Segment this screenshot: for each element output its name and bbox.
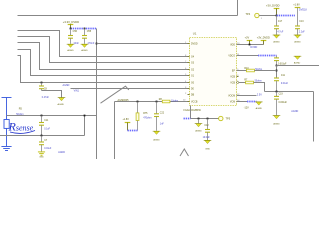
ground AGND of C8	[58, 98, 66, 106]
net label AGND005	[118, 99, 130, 102]
svg-text:DB: DB	[191, 95, 195, 97]
svg-text:VCB: VCB	[230, 83, 235, 85]
ground GND of C7	[38, 152, 45, 159]
resistor R8	[159, 99, 178, 103]
svg-text:AGND: AGND	[294, 61, 301, 64]
IC U1 part number	[184, 109, 202, 112]
capacitor C17	[274, 16, 284, 35]
capacitor C11b	[274, 75, 289, 92]
svg-text:+3V_DVDD: +3V_DVDD	[257, 36, 270, 39]
svg-text:VOCM: VOCM	[228, 96, 235, 98]
svg-text:DVDD: DVDD	[250, 46, 257, 49]
svg-text:AGND: AGND	[195, 129, 202, 132]
wire C10 to C11b	[276, 66, 278, 79]
node junction C56	[70, 28, 72, 30]
svg-text:AGND: AGND	[273, 122, 280, 125]
svg-text:+3V_DVDD: +3V_DVDD	[266, 3, 280, 7]
svg-text:AGND: AGND	[294, 41, 301, 44]
node junction C19	[276, 91, 278, 93]
svg-text:+1.8V: +1.8V	[123, 118, 130, 121]
wire bus line 2	[18, 37, 188, 63]
wire VDCO row	[237, 55, 259, 57]
IC U1 designator	[193, 31, 197, 35]
capacitor C19	[274, 92, 288, 116]
svg-text:AGND: AGND	[291, 110, 298, 113]
svg-text:AGND: AGND	[58, 151, 65, 154]
node junction C7	[41, 135, 43, 137]
wire bus line 1	[18, 31, 188, 57]
wire TP4 to junction	[259, 16, 276, 20]
svg-text:VCB: VCB	[230, 77, 235, 79]
IC U1 right pins	[228, 43, 240, 104]
svg-text:2.2uF: 2.2uF	[299, 32, 305, 34]
wire bus line 3	[18, 43, 188, 70]
svg-text:C56: C56	[73, 30, 78, 33]
resistor R5 labels	[16, 108, 23, 117]
resistor R75	[136, 102, 151, 131]
wire +1.8V to R75 (selected)	[128, 130, 138, 132]
ground GND of C12	[204, 140, 212, 150]
svg-text:1nF: 1nF	[160, 124, 165, 126]
capacitor C56	[68, 29, 79, 45]
node junction R10 row	[276, 70, 278, 72]
svg-text:0.01uF: 0.01uF	[281, 83, 289, 85]
power +1.8V port	[123, 118, 131, 130]
svg-text:VDD: VDD	[230, 45, 235, 47]
resistor R10	[237, 68, 277, 72]
node junction VDD	[249, 44, 251, 46]
wire Rsense vertical (selected)	[6, 98, 8, 120]
svg-text:0.001uF: 0.001uF	[279, 102, 288, 104]
svg-text:10ohm: 10ohm	[171, 100, 178, 102]
capacitor C12	[203, 119, 211, 141]
svg-text:+3.3V_DVDD: +3.3V_DVDD	[63, 20, 79, 24]
power +3V port	[245, 36, 253, 44]
ground AGND drop	[195, 119, 203, 133]
svg-text:C11: C11	[281, 75, 286, 77]
wire row 7	[71, 88, 188, 90]
svg-text:1: 1	[261, 18, 262, 20]
node junction C11	[41, 115, 43, 117]
wire IC bottom stub	[190, 106, 192, 119]
svg-text:R75: R75	[143, 113, 148, 115]
svg-text:C55: C55	[87, 30, 92, 33]
capacitor C8	[39, 83, 50, 99]
power +3.3V_DVDD symbol	[68, 25, 74, 29]
svg-text:C13: C13	[299, 21, 304, 23]
svg-text:470ohm: 470ohm	[143, 118, 151, 120]
wire VDCO selected	[258, 55, 277, 57]
svg-text:DVD18: DVD18	[299, 9, 307, 12]
svg-text:GND: GND	[205, 148, 210, 150]
power +1.8V label	[293, 3, 300, 6]
power +3V_DVDD top label	[266, 3, 280, 7]
power +3V_DVDD port 2	[257, 36, 270, 44]
svg-text:VCM: VCM	[230, 102, 235, 104]
resistor R7	[239, 80, 265, 92]
svg-text:VCCB: VCCB	[191, 102, 198, 104]
wire bus line 4	[18, 50, 188, 76]
wire right down	[313, 92, 315, 142]
net label DVD18	[299, 9, 307, 12]
resistor R? (selected)	[4, 120, 9, 129]
wire caret jog	[180, 149, 189, 156]
wire VCM selected	[247, 101, 257, 103]
capacitor C7	[39, 136, 52, 152]
svg-text:10.0uF: 10.0uF	[203, 137, 211, 139]
capacitor C11	[39, 116, 51, 136]
node junction 84.5-115	[84, 115, 86, 117]
wire TP5 row	[191, 118, 219, 120]
wire below resistor (selected)	[6, 128, 8, 146]
svg-text:50ohm: 50ohm	[255, 81, 262, 83]
wire VOCM row	[237, 94, 263, 97]
node junction C22	[156, 101, 158, 103]
svg-text:VIN1: VIN1	[74, 90, 80, 93]
IC U1 body	[190, 38, 237, 106]
wire vertical 84.5	[84, 116, 86, 136]
svg-text:AGND: AGND	[58, 103, 65, 106]
net label blue bottom	[58, 151, 65, 154]
node junction GND drop	[198, 118, 200, 120]
svg-text:FGA/ADC2BFW: FGA/ADC2BFW	[184, 109, 202, 112]
svg-text:0.47uF: 0.47uF	[42, 97, 50, 99]
wire VCM row	[237, 101, 248, 103]
ground AGND of VCM	[255, 102, 263, 110]
net label blue row5	[63, 84, 70, 87]
node junction DVDD feed	[96, 43, 98, 45]
net label blue row7	[74, 90, 80, 93]
ground AGND of C56	[67, 44, 75, 52]
capacitor C10	[274, 56, 287, 66]
wire row 115	[7, 115, 97, 117]
svg-text:AGND: AGND	[81, 49, 88, 52]
power +3V_DVDD top symbol	[274, 9, 280, 16]
svg-text:2.5V: 2.5V	[257, 94, 262, 97]
svg-text:TP5: TP5	[226, 118, 231, 121]
svg-text:TP4: TP4	[246, 13, 251, 16]
node junction C8	[41, 82, 43, 84]
label -12V	[244, 107, 249, 110]
svg-text:AGND: AGND	[256, 107, 263, 110]
node junction C55	[84, 28, 86, 30]
wire terminal bar	[2, 97, 12, 99]
pin number 10	[183, 100, 186, 102]
svg-text:+1.8V: +1.8V	[293, 3, 300, 6]
svg-text:AGND: AGND	[273, 41, 280, 44]
svg-text:0.01uF: 0.01uF	[44, 148, 52, 150]
wire C8 to AGND elbow	[42, 91, 62, 98]
test point TP5	[219, 116, 231, 120]
IC U1 left pins	[185, 42, 198, 104]
net label DVDD	[250, 46, 257, 49]
svg-text:EP: EP	[232, 71, 236, 73]
svg-text:C17: C17	[278, 21, 283, 23]
capacitor C22	[154, 102, 165, 131]
wire TP5 selected	[184, 118, 191, 120]
wire rail AGND005	[115, 102, 188, 160]
test point TP4	[246, 13, 260, 18]
svg-text:470nF: 470nF	[88, 42, 95, 45]
svg-text:4.7uF: 4.7uF	[277, 32, 283, 34]
svg-text:GND: GND	[39, 157, 44, 159]
svg-text:0.1uF: 0.1uF	[44, 129, 50, 131]
ground AGND of C55	[81, 44, 89, 52]
ground AGND of C13	[294, 35, 302, 44]
svg-text:C12: C12	[204, 125, 209, 127]
power +1.8V symbol	[295, 8, 301, 27]
ground AGND of C22	[153, 131, 161, 141]
wire diagonal jog	[101, 86, 129, 103]
ground of Rsense (selected)	[1, 147, 11, 151]
wire +3V_DVDD selected	[277, 15, 296, 17]
svg-text:U1: U1	[193, 31, 197, 35]
svg-text:C19: C19	[279, 93, 284, 95]
wire net to TP4 (top long wire)	[18, 0, 238, 16]
svg-text:R10: R10	[244, 68, 249, 70]
svg-text:DVDD: DVDD	[191, 44, 198, 46]
node junction R75	[137, 101, 139, 103]
ground AGND mid-right	[294, 56, 302, 64]
wire bus line 5	[18, 56, 188, 83]
svg-text:C22: C22	[160, 112, 165, 114]
wire +3.3V_DVDD net (selected)	[71, 28, 97, 30]
ground AGND of C17	[273, 35, 281, 44]
ground AGND of C19	[273, 116, 281, 126]
node junction C12	[207, 118, 209, 120]
node junction C10	[276, 65, 278, 67]
svg-text:-12V: -12V	[244, 107, 249, 110]
node junction TP4	[276, 15, 278, 17]
wire vertical main (cap bank to bottom)	[96, 29, 98, 160]
wire to right edge	[277, 65, 320, 67]
wire row 135	[0, 135, 85, 137]
capacitor C13	[295, 21, 305, 35]
net label right low	[291, 110, 298, 113]
svg-text:AGND: AGND	[153, 139, 160, 142]
capacitor C55	[82, 29, 95, 45]
svg-text:AGND: AGND	[67, 49, 74, 52]
svg-text:50ohm: 50ohm	[255, 69, 262, 71]
svg-text:VDCO: VDCO	[228, 56, 235, 58]
svg-text:+3V: +3V	[245, 36, 250, 39]
power +3.3V_DVDD label	[63, 20, 79, 24]
annotation Rsense handwriting	[8, 120, 36, 134]
svg-text:AGND: AGND	[63, 84, 70, 87]
wire VDD pin row	[237, 44, 264, 46]
wire DVDD pin row	[97, 43, 188, 45]
wire row 91.5	[265, 91, 314, 93]
